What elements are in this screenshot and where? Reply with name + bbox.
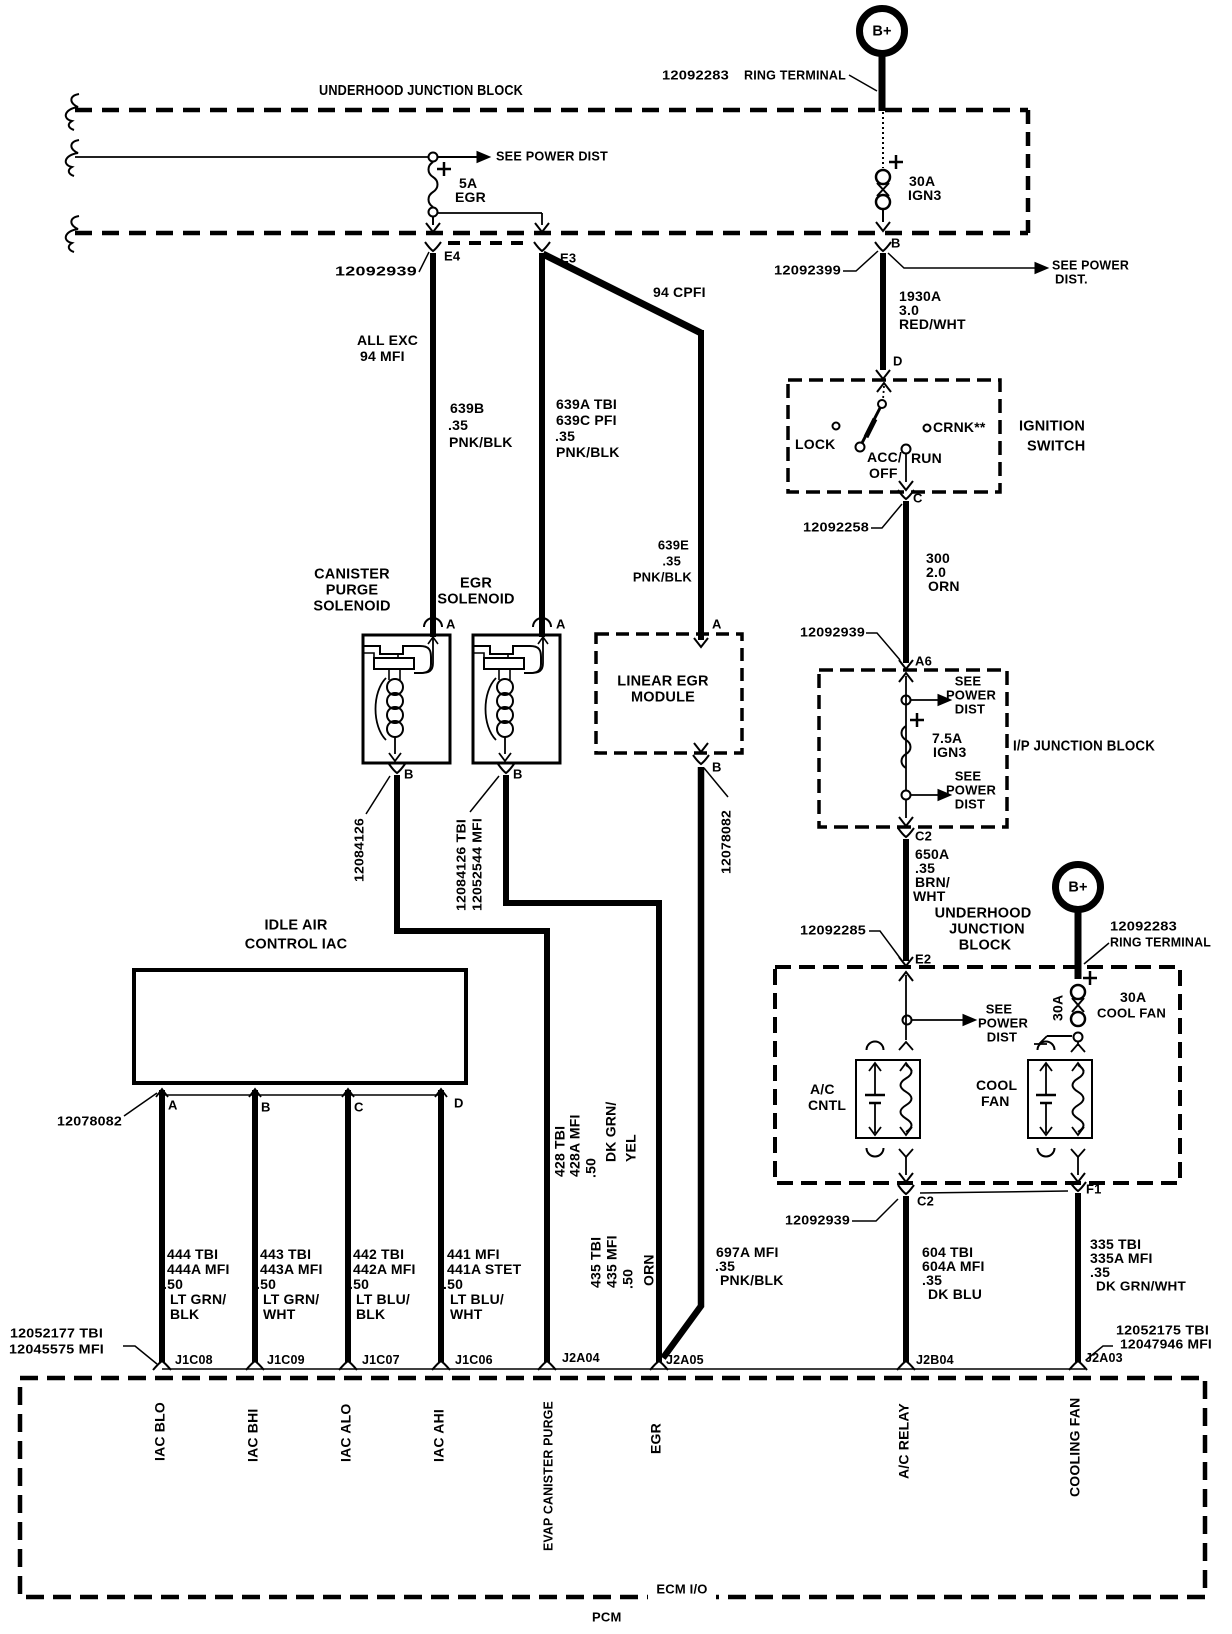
svg-text:D: D (893, 353, 903, 368)
terminal B (EGR) (498, 764, 523, 781)
dashes between E4 and E3 (448, 241, 530, 245)
svg-text:C2: C2 (915, 828, 932, 843)
fork into COOL FAN relay coil (1071, 1042, 1085, 1052)
svg-text:POWER: POWER (946, 687, 997, 702)
svg-text:12092939: 12092939 (785, 1212, 850, 1227)
svg-text:C: C (354, 1099, 364, 1114)
svg-text:J1C07: J1C07 (362, 1353, 400, 1367)
terminal B (IAC) (249, 1089, 271, 1114)
svg-text:SOLENOID: SOLENOID (437, 591, 514, 607)
junction block: UNDERHOOD JUNCTION BLOCK (top) (75, 82, 1028, 233)
thin line C2 to F1 (920, 1191, 1068, 1193)
svg-text:435 MFI: 435 MFI (604, 1235, 620, 1288)
svg-text:RUN: RUN (911, 450, 942, 466)
svg-text:.35: .35 (662, 553, 681, 568)
svg-text:SEE: SEE (955, 768, 982, 783)
svg-text:441 MFI: 441 MFI (447, 1246, 500, 1262)
svg-text:CONTROL IAC: CONTROL IAC (245, 936, 348, 952)
svg-text:12052544 MFI: 12052544 MFI (470, 818, 485, 911)
svg-text:DK GRN/: DK GRN/ (603, 1101, 619, 1162)
svg-text:IGN3: IGN3 (933, 744, 966, 760)
svg-text:DIST: DIST (955, 701, 985, 716)
svg-text:DK GRN/WHT: DK GRN/WHT (1096, 1278, 1186, 1293)
wire inside I/P block (899, 673, 913, 790)
svg-text:ORN: ORN (641, 1254, 657, 1286)
node + see power dist (upper) (902, 673, 997, 716)
label 12078082 rotated pointer (linear EGR) (704, 768, 734, 874)
svg-text:94 CPFI: 94 CPFI (653, 284, 706, 300)
wire from E2 inside (899, 972, 913, 1040)
label 12092939 pointer (to C2 lower) (785, 1199, 898, 1227)
svg-text:12092399: 12092399 (774, 262, 841, 277)
svg-text:639E: 639E (658, 537, 689, 552)
wire 1930A RED/WHT (876, 253, 966, 379)
wire COOL FAN relay to bottom edge (1071, 1157, 1085, 1182)
svg-text:12078082: 12078082 (719, 810, 734, 874)
arcs below A/C relay (867, 1148, 914, 1157)
svg-text:SEE: SEE (986, 1001, 1013, 1016)
svg-text:LOCK: LOCK (795, 436, 835, 452)
svg-text:ALL EXC: ALL EXC (357, 332, 418, 348)
connector J1C08 (153, 1353, 213, 1370)
label 12084126 rotated pointer (352, 776, 390, 882)
svg-text:POWER: POWER (978, 1015, 1029, 1030)
svg-text:CRNK**: CRNK** (933, 419, 986, 435)
wire IAC AHI 441 (441, 1090, 522, 1362)
svg-text:WHT: WHT (450, 1306, 483, 1322)
relay COOL FAN (1028, 1060, 1092, 1138)
svg-text:A: A (556, 616, 566, 631)
svg-text:A/C: A/C (810, 1081, 835, 1097)
svg-text:.35: .35 (448, 417, 468, 433)
svg-text:J2A03: J2A03 (1085, 1351, 1123, 1365)
node at fuse 5A top (429, 153, 438, 162)
fuse 30A IGN3 (876, 112, 941, 231)
label 30A COOL FAN (1097, 989, 1166, 1020)
svg-text:J2A04: J2A04 (562, 1351, 600, 1365)
svg-text:12092283: 12092283 (662, 67, 729, 82)
svg-text:442 TBI: 442 TBI (353, 1246, 404, 1262)
svg-text:B: B (513, 766, 523, 781)
fuse 5A EGR (429, 162, 486, 217)
terminal C (IAC) (342, 1089, 364, 1114)
svg-text:12052177 TBI: 12052177 TBI (10, 1325, 103, 1340)
svg-text:12092258: 12092258 (803, 519, 869, 534)
svg-text:12092939: 12092939 (335, 263, 417, 278)
labels 428 rotated (552, 1101, 639, 1178)
svg-text:.50: .50 (620, 1269, 636, 1289)
svg-text:639B: 639B (450, 400, 484, 416)
label 12052175 TBI 12047946 MFI pointer (1086, 1322, 1212, 1360)
svg-text:I/P JUNCTION BLOCK: I/P JUNCTION BLOCK (1013, 738, 1155, 754)
terminal B (linear EGR) (693, 755, 722, 774)
svg-text:.50: .50 (443, 1276, 463, 1292)
svg-text:ACC/: ACC/ (867, 449, 902, 465)
svg-text:LT BLU/: LT BLU/ (450, 1291, 504, 1307)
svg-text:IDLE AIR: IDLE AIR (264, 917, 327, 933)
svg-text:DIST.: DIST. (1055, 271, 1088, 286)
module: IDLE AIR CONTROL IAC (134, 917, 466, 1083)
svg-text:A/C RELAY: A/C RELAY (896, 1403, 912, 1479)
arrow out of I/P block (899, 800, 913, 826)
connector arc over COOL FAN relay contact (1038, 1042, 1055, 1051)
svg-text:444 TBI: 444 TBI (167, 1246, 218, 1262)
module: ECM I/O (PCM) (20, 1378, 1205, 1597)
label ACC/OFF (867, 449, 902, 481)
svg-text:ORN: ORN (928, 578, 960, 594)
ECM pin labels rotated (152, 1398, 1083, 1551)
svg-text:F1: F1 (1086, 1181, 1102, 1196)
wire 335 DK GRN/WHT (1078, 1193, 1186, 1362)
connector J1C09 (246, 1353, 305, 1370)
svg-text:LT BLU/: LT BLU/ (356, 1291, 410, 1307)
svg-text:RED/WHT: RED/WHT (899, 316, 966, 332)
terminal C2 (lower) (898, 1185, 934, 1208)
node + see power dist (lower block) (903, 1001, 1029, 1044)
svg-text:441A STET: 441A STET (447, 1261, 522, 1277)
svg-text:JUNCTION: JUNCTION (949, 921, 1025, 937)
label 12092939 pointer to E4 (335, 252, 429, 278)
svg-text:A: A (712, 616, 722, 631)
svg-text:COOLING FAN: COOLING FAN (1067, 1398, 1083, 1497)
svg-text:B+: B+ (1068, 879, 1087, 895)
wire 639B PNK/BLK (E4 to canister purge solenoid) (357, 253, 513, 637)
wire 639A/639C PNK/BLK (E3 to EGR solenoid) (542, 253, 620, 637)
module: LINEAR EGR MODULE (596, 634, 742, 753)
battery feed B+ (lower) (1056, 865, 1101, 980)
label RUN (911, 450, 942, 466)
wire from fuse to E4 and E3 (426, 213, 549, 232)
svg-text:PCM: PCM (592, 1609, 622, 1624)
label 12092258 pointer (803, 504, 902, 534)
svg-text:12078082: 12078082 (57, 1113, 122, 1128)
junction block: UNDERHOOD JUNCTION BLOCK (lower) (775, 967, 1180, 1183)
terminal E4 (425, 242, 461, 263)
wire 604 DK BLU (906, 1196, 985, 1362)
solenoid: EGR SOLENOID (437, 575, 560, 763)
svg-text:443A MFI: 443A MFI (260, 1261, 323, 1277)
connector J2B04 (897, 1353, 954, 1370)
svg-text:BLOCK: BLOCK (959, 937, 1012, 953)
label 12092283 RING TERMINAL (662, 67, 877, 91)
svg-text:12045575 MFI: 12045575 MFI (9, 1341, 104, 1356)
svg-text:J1C08: J1C08 (175, 1353, 213, 1367)
svg-text:UNDERHOOD: UNDERHOOD (935, 905, 1032, 921)
svg-text:PNK/BLK: PNK/BLK (449, 434, 513, 450)
svg-text:12084126 TBI: 12084126 TBI (454, 819, 469, 911)
svg-text:DIST: DIST (955, 796, 985, 811)
see power dist arrow (top left) (438, 148, 608, 163)
svg-text:EGR: EGR (648, 1423, 664, 1454)
continuation brace (top) (66, 94, 79, 130)
junction block: I/P JUNCTION BLOCK (819, 670, 1155, 827)
label 12092399 pointer (774, 251, 878, 277)
svg-text:COOL FAN: COOL FAN (1097, 1005, 1166, 1020)
svg-text:12092283: 12092283 (1110, 918, 1177, 933)
svg-text:30A: 30A (1120, 989, 1146, 1005)
wire EGR solenoid to J2A05 (506, 775, 659, 1362)
wire IAC BHI 443 (255, 1090, 323, 1362)
terminal D (893, 353, 903, 368)
svg-text:443 TBI: 443 TBI (260, 1246, 311, 1262)
relay A/C CNTL (856, 1060, 920, 1138)
svg-text:LINEAR EGR: LINEAR EGR (617, 673, 709, 689)
svg-text:SEE POWER: SEE POWER (1052, 257, 1129, 272)
connector arc over A/C relay contact (867, 1042, 884, 1051)
svg-text:E4: E4 (444, 248, 461, 263)
svg-text:IAC BHI: IAC BHI (245, 1408, 261, 1462)
label 12052177 TBI 12045575 MFI pointer (9, 1325, 157, 1364)
terminal C (898, 490, 923, 505)
svg-text:C: C (913, 490, 923, 505)
connector J1C06 (432, 1353, 493, 1370)
labels 12084126 TBI / 12052544 MFI rotated pointer (454, 776, 499, 911)
ignition switch box (788, 380, 1085, 492)
svg-text:A: A (446, 616, 456, 631)
svg-text:CANISTER: CANISTER (314, 566, 390, 582)
label A/C CNTL (808, 1081, 846, 1113)
svg-text:SEE POWER DIST: SEE POWER DIST (496, 148, 608, 163)
svg-text:WHT: WHT (913, 888, 946, 904)
terminal B (canister) (389, 764, 414, 781)
svg-text:A6: A6 (915, 653, 932, 668)
fuse 30A COOL FAN (1034, 971, 1097, 1044)
battery feed B+ (top) (860, 9, 905, 112)
see power dist arrow (node B) (888, 253, 1129, 286)
svg-text:EGR: EGR (460, 575, 492, 591)
svg-text:J2B04: J2B04 (916, 1353, 954, 1367)
bus wire to fuse 5A (75, 156, 428, 158)
svg-text:ECM I/O: ECM I/O (656, 1581, 707, 1596)
svg-text:EGR: EGR (455, 189, 486, 205)
node B (875, 235, 901, 251)
svg-text:A: A (168, 1097, 178, 1112)
terminal E3 (534, 242, 576, 265)
label 30A rotated (1050, 995, 1066, 1021)
svg-text:IGN3: IGN3 (908, 187, 941, 203)
svg-text:EVAP CANISTER PURGE: EVAP CANISTER PURGE (541, 1401, 556, 1551)
svg-text:RING TERMINAL: RING TERMINAL (744, 67, 846, 82)
svg-text:B: B (261, 1099, 271, 1114)
svg-text:435 TBI: 435 TBI (588, 1237, 604, 1288)
svg-text:94 MFI: 94 MFI (360, 348, 405, 364)
continuation brace (middle) (66, 140, 79, 176)
svg-text:MODULE: MODULE (631, 689, 695, 705)
node + see power dist (lower) (902, 768, 997, 811)
svg-text:444A MFI: 444A MFI (167, 1261, 230, 1277)
label LOCK (795, 436, 835, 452)
terminal A (linear EGR) (712, 616, 722, 631)
wire IAC ALO 442 (348, 1090, 416, 1362)
svg-text:DK BLU: DK BLU (928, 1286, 982, 1302)
svg-text:LT GRN/: LT GRN/ (170, 1291, 226, 1307)
connector J2A04 (538, 1351, 600, 1370)
svg-text:D: D (454, 1095, 464, 1110)
svg-text:.50: .50 (256, 1276, 276, 1292)
fork into A/C relay coil (899, 1042, 913, 1050)
svg-text:B: B (891, 235, 901, 250)
wire IAC BLO 444 (162, 1090, 230, 1362)
svg-text:30A: 30A (1050, 995, 1066, 1021)
svg-text:CNTL: CNTL (808, 1097, 846, 1113)
wire 697A PNK/BLK from linear EGR (663, 767, 701, 1358)
label CRNK (933, 419, 986, 435)
svg-text:.50: .50 (583, 1158, 599, 1178)
svg-text:12047946 MFI: 12047946 MFI (1120, 1336, 1212, 1351)
wire 650A BRN/WHT (899, 839, 950, 966)
terminal E2 (915, 951, 931, 966)
label 12092283 RING TERMINAL (lower) (1084, 918, 1211, 964)
svg-text:BLK: BLK (170, 1306, 199, 1322)
svg-text:J1C06: J1C06 (455, 1353, 493, 1367)
svg-text:442A MFI: 442A MFI (353, 1261, 416, 1277)
svg-text:UNDERHOOD JUNCTION BLOCK: UNDERHOOD JUNCTION BLOCK (319, 82, 523, 99)
svg-text:PNK/BLK: PNK/BLK (633, 569, 693, 584)
svg-text:IAC AHI: IAC AHI (431, 1409, 447, 1462)
svg-text:428 TBI: 428 TBI (552, 1126, 568, 1177)
svg-text:12092939: 12092939 (800, 624, 865, 639)
svg-text:IAC BLO: IAC BLO (152, 1402, 168, 1461)
label ECM I/O (648, 1579, 716, 1601)
svg-text:12052175 TBI: 12052175 TBI (1116, 1322, 1209, 1337)
svg-text:B+: B+ (872, 23, 891, 39)
svg-text:SOLENOID: SOLENOID (313, 598, 390, 614)
svg-text:SEE: SEE (955, 673, 982, 688)
label COOL FAN (976, 1077, 1017, 1109)
svg-text:428A MFI: 428A MFI (567, 1114, 583, 1177)
svg-text:PNK/BLK: PNK/BLK (556, 444, 620, 460)
svg-text:639C PFI: 639C PFI (556, 412, 617, 428)
terminal D (IAC) (435, 1089, 464, 1110)
svg-text:COOL: COOL (976, 1077, 1017, 1093)
label 12092939 pointer (to A6) (800, 624, 900, 660)
connector J2A05 (650, 1353, 704, 1370)
svg-text:J2A05: J2A05 (666, 1353, 704, 1367)
svg-text:IGNITION: IGNITION (1019, 418, 1085, 434)
terminal A (IAC) (156, 1089, 178, 1112)
svg-text:PNK/BLK: PNK/BLK (720, 1272, 784, 1288)
wire label 639E PNK/BLK (633, 537, 693, 584)
svg-text:RING TERMINAL: RING TERMINAL (1110, 934, 1211, 949)
labels 435 rotated (588, 1235, 657, 1289)
title UNDERHOOD JUNCTION BLOCK (lower) (935, 905, 1032, 953)
svg-text:.35: .35 (555, 428, 575, 444)
connector J2A03 (1069, 1351, 1123, 1370)
terminal A (EGR) (533, 616, 566, 631)
svg-text:LT GRN/: LT GRN/ (263, 1291, 319, 1307)
svg-text:POWER: POWER (946, 782, 997, 797)
terminal C2 (I/P) (898, 828, 932, 843)
svg-text:IAC ALO: IAC ALO (338, 1404, 354, 1462)
svg-text:SWITCH: SWITCH (1027, 438, 1085, 454)
wire A/C relay to bottom edge (899, 1157, 913, 1182)
wire EVAP canister purge 428 DK GRN/YEL (397, 775, 547, 1362)
svg-text:.50: .50 (349, 1276, 369, 1292)
svg-text:OFF: OFF (869, 465, 898, 481)
svg-text:C2: C2 (917, 1193, 934, 1208)
svg-text:B: B (712, 759, 722, 774)
svg-text:FAN: FAN (981, 1093, 1010, 1109)
labels 697A MFI PNK/BLK (715, 1244, 784, 1288)
IAC terminal row line (162, 1094, 442, 1096)
label PCM (592, 1609, 622, 1624)
svg-text:WHT: WHT (263, 1306, 296, 1322)
solenoid: CANISTER PURGE SOLENOID (313, 566, 450, 763)
svg-text:PURGE: PURGE (326, 582, 379, 598)
ignition switch internals (833, 383, 931, 490)
connector J1C07 (339, 1353, 400, 1370)
arcs below COOL FAN relay (1038, 1148, 1086, 1157)
connector row line (162, 1368, 1085, 1370)
label 12092285 pointer (800, 922, 900, 958)
svg-text:BLK: BLK (356, 1306, 385, 1322)
svg-text:E2: E2 (915, 951, 931, 966)
svg-text:YEL: YEL (623, 1134, 639, 1162)
continuation brace (bottom) (66, 216, 79, 252)
svg-text:.50: .50 (163, 1276, 183, 1292)
svg-text:J1C09: J1C09 (267, 1353, 305, 1367)
svg-text:639A TBI: 639A TBI (556, 396, 617, 412)
terminal F1 (1070, 1181, 1102, 1196)
terminal A6 (899, 653, 932, 669)
svg-text:12084126: 12084126 (352, 818, 367, 882)
fuse 7.5A IGN3 (902, 713, 967, 768)
wire 300 ORN (906, 501, 960, 663)
terminal A (canister) (424, 616, 456, 631)
svg-text:B: B (404, 766, 414, 781)
wire 94 CPFI diagonal to linear EGR (543, 254, 706, 640)
label 12078082 pointer (IAC) (57, 1093, 157, 1128)
svg-text:12092285: 12092285 (800, 922, 866, 937)
svg-text:DIST: DIST (987, 1029, 1017, 1044)
